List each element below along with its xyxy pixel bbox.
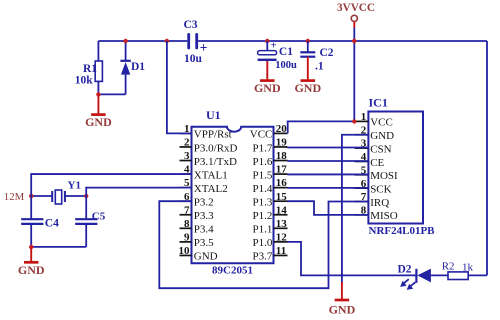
svg-text:89C2051: 89C2051 [212,265,253,277]
svg-text:19: 19 [276,137,288,149]
svg-text:3VVCC: 3VVCC [337,2,375,14]
svg-text:U1: U1 [206,108,221,122]
svg-text:P3.4: P3.4 [194,224,214,236]
svg-text:C4: C4 [45,218,59,230]
svg-text:VPP/Rst: VPP/Rst [194,129,232,141]
svg-text:18: 18 [276,150,288,162]
svg-text:10: 10 [179,245,191,257]
svg-text:VCC: VCC [250,129,273,141]
svg-text:R2: R2 [442,261,455,273]
svg-text:SCK: SCK [370,183,391,195]
svg-text:P1.1: P1.1 [253,224,273,236]
svg-text:3: 3 [184,150,190,162]
svg-text:10u: 10u [184,53,203,65]
svg-text:CSN: CSN [370,143,391,155]
svg-text:CE: CE [370,157,384,169]
svg-text:P3.2: P3.2 [194,197,214,209]
svg-text:GND: GND [18,263,45,277]
svg-text:GND: GND [254,81,281,95]
svg-text:P1.4: P1.4 [253,183,273,195]
svg-text:Y1: Y1 [68,180,81,192]
svg-text:1: 1 [361,111,367,123]
svg-text:12: 12 [276,231,288,243]
svg-text:C5: C5 [92,211,106,223]
svg-text:D1: D1 [131,61,145,73]
svg-text:NRF24L01PB: NRF24L01PB [369,225,436,237]
svg-text:C3: C3 [184,19,198,31]
svg-text:C1: C1 [279,46,293,58]
svg-text:IRQ: IRQ [370,197,389,209]
svg-text:1k: 1k [462,261,474,273]
svg-text:P3.3: P3.3 [194,210,214,222]
svg-text:P3.0/RxD: P3.0/RxD [194,142,238,154]
svg-text:MISO: MISO [370,210,398,222]
svg-text:XTAL1: XTAL1 [194,169,228,181]
svg-text:MOSI: MOSI [370,170,398,182]
svg-text:P1.7: P1.7 [253,142,273,154]
svg-text:20: 20 [276,123,288,135]
svg-text:17: 17 [276,164,288,176]
svg-text:XTAL2: XTAL2 [194,183,228,195]
svg-text:P3.1/TxD: P3.1/TxD [194,156,237,168]
svg-text:10k: 10k [75,75,94,87]
svg-text:GND: GND [329,302,356,316]
svg-text:P3.7: P3.7 [253,251,273,263]
svg-text:+: + [271,41,277,52]
svg-text:P1.0: P1.0 [253,237,273,249]
svg-text:9: 9 [184,231,190,243]
svg-text:P1.2: P1.2 [253,210,273,222]
svg-text:GND: GND [194,251,218,263]
svg-text:IC1: IC1 [369,96,388,110]
svg-text:15: 15 [276,191,288,203]
svg-text:8: 8 [184,218,190,230]
svg-text:GND: GND [294,81,321,95]
svg-text:C2: C2 [320,47,334,59]
svg-text:D2: D2 [398,264,412,276]
svg-text:P1.5: P1.5 [253,169,273,181]
svg-text:16: 16 [276,177,288,189]
svg-text:2: 2 [184,137,190,149]
svg-text:VCC: VCC [370,117,393,129]
svg-text:7: 7 [184,204,190,216]
svg-text:13: 13 [276,218,288,230]
svg-text:P3.5: P3.5 [194,237,214,249]
svg-text:12M: 12M [4,191,25,203]
svg-text:P1.6: P1.6 [253,156,273,168]
svg-text:GND: GND [370,130,394,142]
svg-text:11: 11 [276,245,286,257]
svg-text:P1.3: P1.3 [253,197,273,209]
svg-text:.1: .1 [315,61,324,73]
svg-text:R1: R1 [83,63,97,75]
svg-text:GND: GND [85,115,112,129]
svg-text:14: 14 [276,204,288,216]
svg-text:100u: 100u [275,60,297,71]
